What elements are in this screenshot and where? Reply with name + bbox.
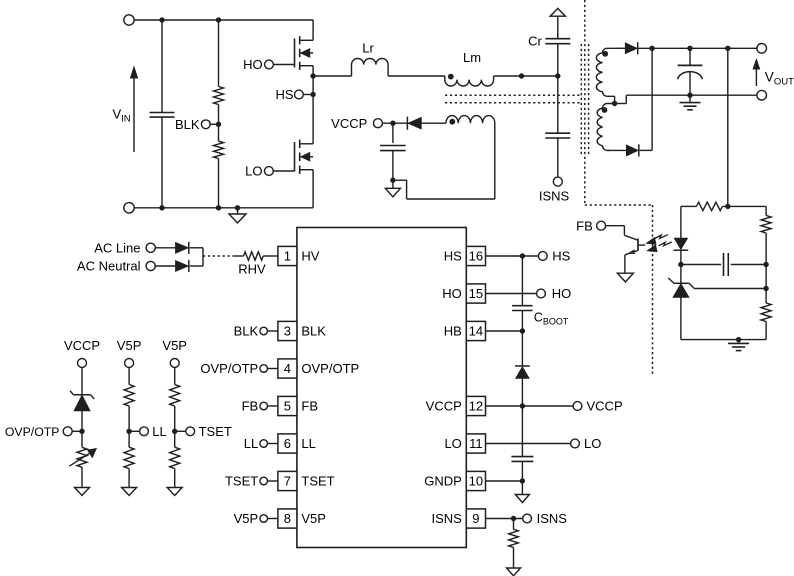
svg-text:BLK: BLK [175,117,200,132]
svg-text:VCCP: VCCP [587,399,623,414]
svg-text:6: 6 [284,436,291,451]
svg-text:HO: HO [442,286,462,301]
svg-text:LL: LL [244,436,258,451]
svg-text:VCCP: VCCP [331,116,367,131]
svg-text:RHV: RHV [238,261,266,276]
svg-text:HS: HS [275,87,293,102]
svg-text:ISNS: ISNS [431,511,462,526]
svg-text:Lr: Lr [362,41,374,56]
svg-text:14: 14 [469,324,483,339]
svg-text:FB: FB [576,218,593,233]
svg-text:3: 3 [284,324,291,339]
svg-text:LO: LO [584,436,601,451]
svg-text:Lm: Lm [463,50,481,65]
svg-text:HV: HV [301,249,319,264]
svg-text:AC Line: AC Line [94,240,140,255]
svg-text:4: 4 [284,361,291,376]
svg-text:LL: LL [152,424,166,439]
svg-text:HS: HS [552,249,570,264]
svg-text:Cr: Cr [528,34,542,49]
svg-text:FB: FB [242,399,259,414]
svg-text:LL: LL [301,436,315,451]
svg-text:16: 16 [469,249,483,264]
svg-text:OVP/OTP: OVP/OTP [301,361,359,376]
svg-text:11: 11 [469,436,483,451]
svg-text:9: 9 [472,511,479,526]
svg-text:7: 7 [284,474,291,489]
svg-text:TSET: TSET [301,474,334,489]
svg-text:FB: FB [301,399,318,414]
svg-text:V5P: V5P [117,338,142,353]
svg-text:15: 15 [469,286,483,301]
svg-text:HO: HO [243,57,263,72]
svg-text:1: 1 [284,249,291,264]
svg-text:TSET: TSET [225,474,258,489]
svg-text:OVP/OTP: OVP/OTP [200,361,258,376]
svg-text:5: 5 [284,399,291,414]
svg-text:HB: HB [444,324,462,339]
svg-text:ISNS: ISNS [537,511,568,526]
svg-text:ISNS: ISNS [539,189,570,204]
svg-text:AC Neutral: AC Neutral [77,259,141,274]
svg-text:TSET: TSET [199,424,232,439]
svg-text:12: 12 [469,399,483,414]
svg-text:VCCP: VCCP [426,399,462,414]
svg-text:BLK: BLK [301,324,326,339]
svg-text:8: 8 [284,511,291,526]
svg-text:V5P: V5P [162,338,187,353]
svg-text:OVP/OTP: OVP/OTP [5,425,60,439]
svg-text:V5P: V5P [234,511,259,526]
svg-text:HS: HS [444,249,462,264]
svg-text:LO: LO [444,436,461,451]
svg-text:VCCP: VCCP [64,338,100,353]
svg-text:BLK: BLK [234,324,259,339]
svg-text:10: 10 [469,474,483,489]
svg-text:HO: HO [552,286,572,301]
svg-text:LO: LO [245,164,262,179]
svg-text:GNDP: GNDP [424,474,462,489]
svg-text:V5P: V5P [301,511,326,526]
